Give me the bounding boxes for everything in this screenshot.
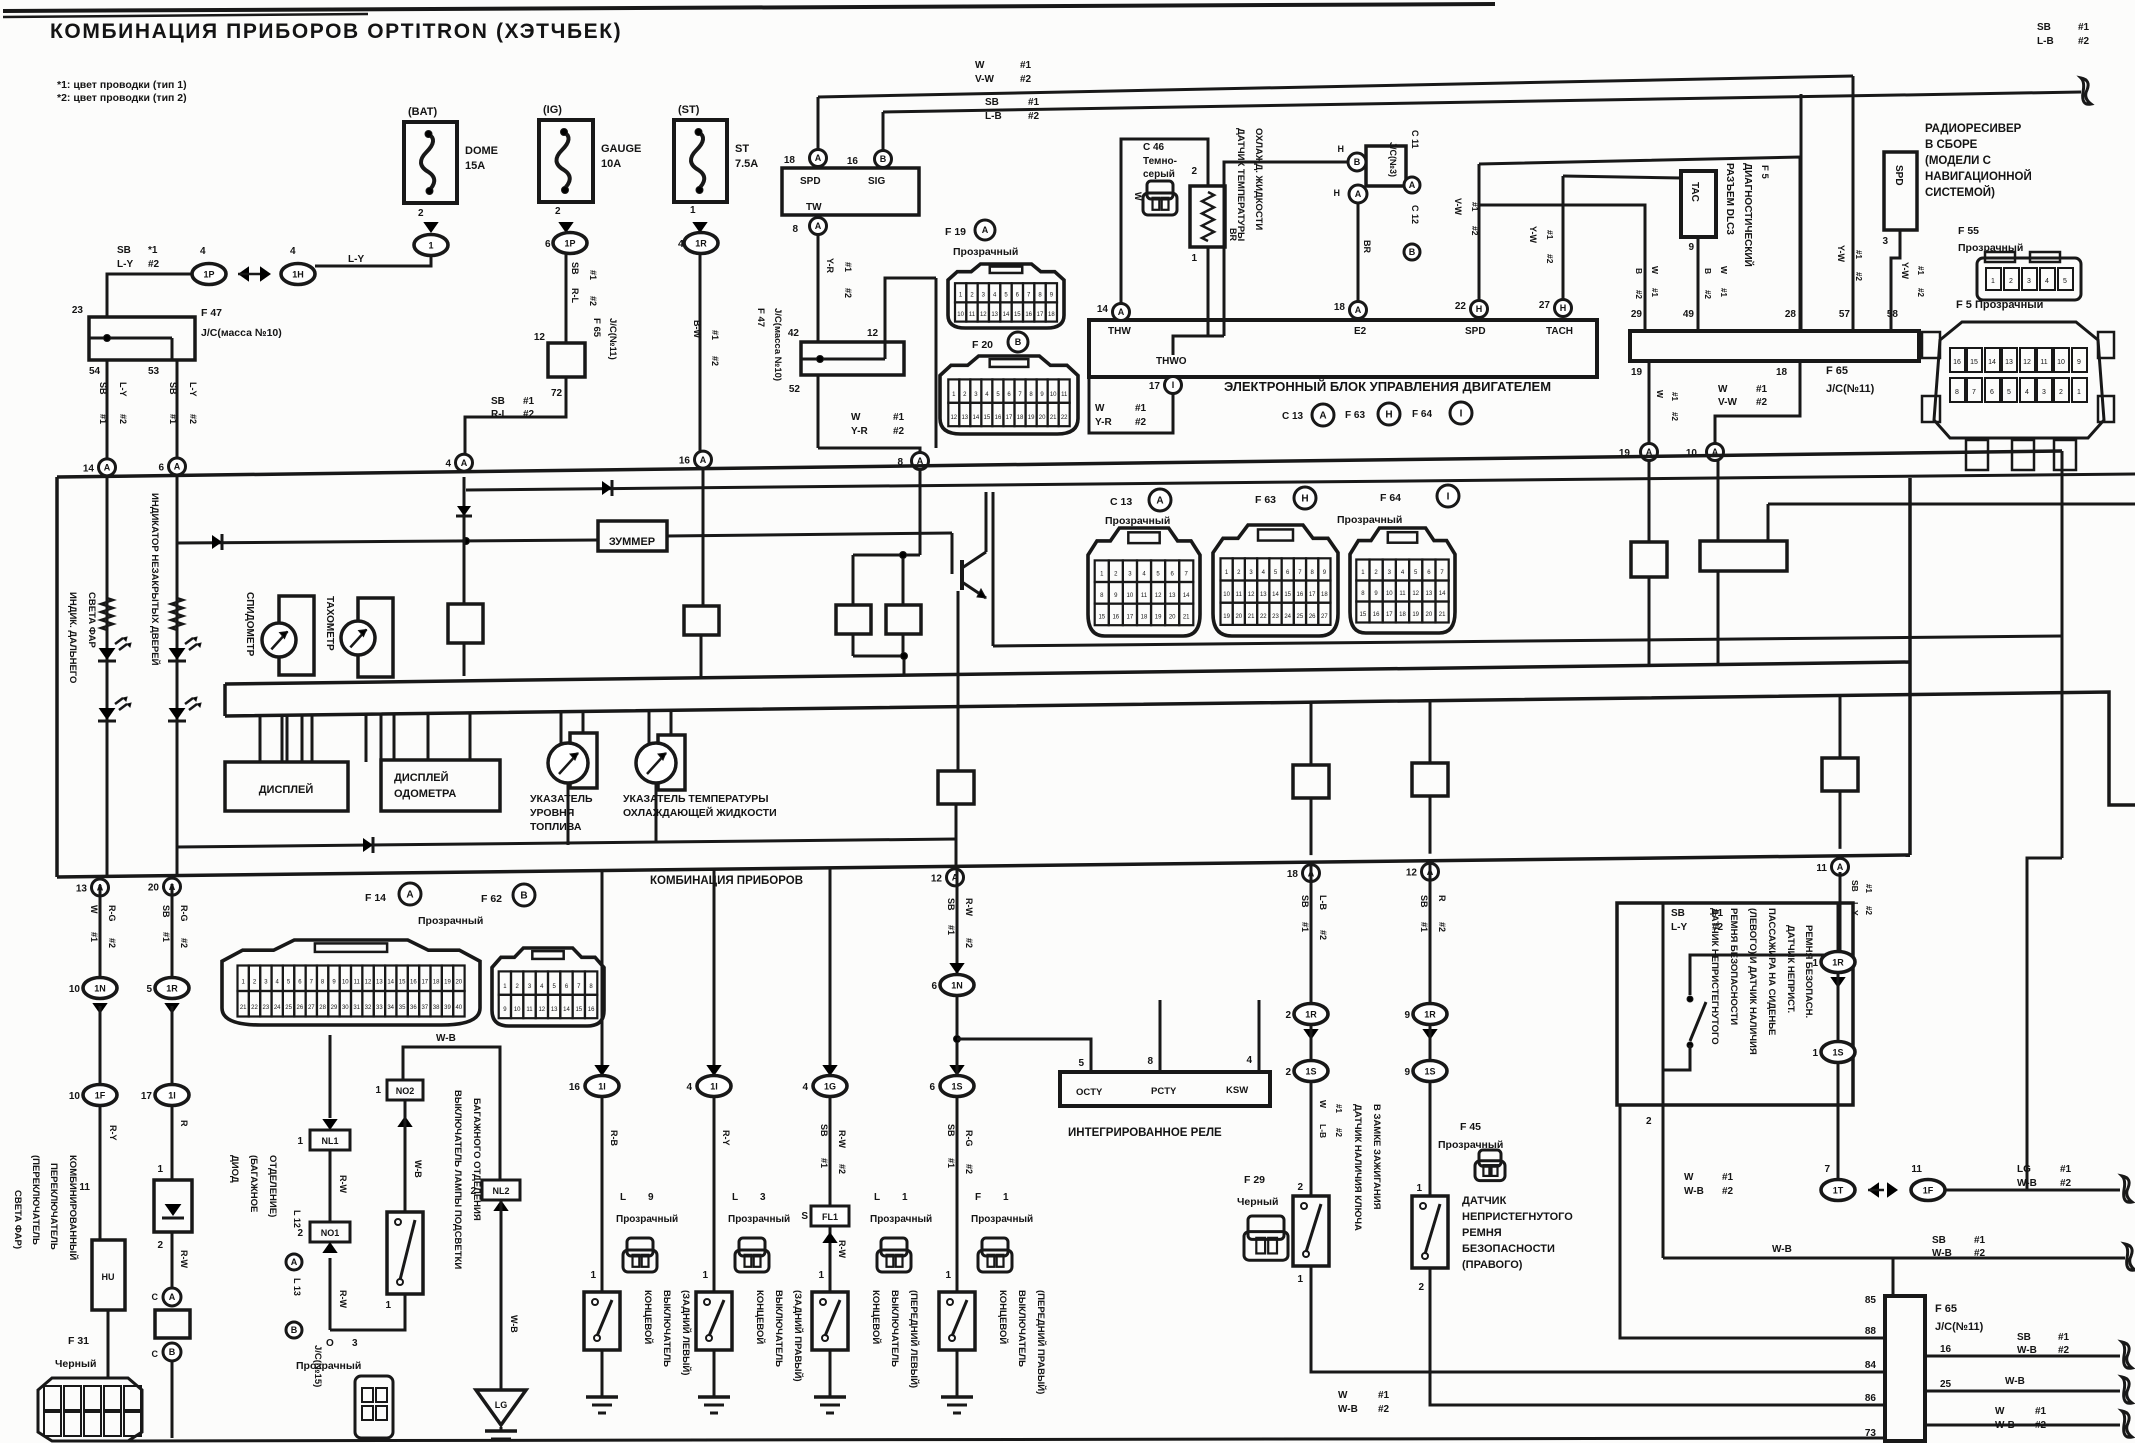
svg-text:W-B: W-B bbox=[1995, 1420, 2015, 1431]
svg-text:#2: #2 bbox=[2078, 36, 2090, 47]
svg-text:24: 24 bbox=[274, 1005, 281, 1011]
svg-text:8: 8 bbox=[1147, 1056, 1153, 1067]
svg-text:L-B: L-B bbox=[2037, 36, 2054, 47]
svg-text:Y-R: Y-R bbox=[851, 426, 868, 437]
svg-text:1I: 1I bbox=[598, 1082, 606, 1092]
svg-text:17: 17 bbox=[1006, 415, 1013, 421]
svg-text:2: 2 bbox=[157, 1240, 163, 1251]
svg-text:#2: #2 bbox=[964, 938, 974, 948]
svg-text:W: W bbox=[1655, 390, 1665, 399]
svg-text:22: 22 bbox=[1061, 415, 1068, 421]
svg-text:РАДИОРЕСИВЕР: РАДИОРЕСИВЕР bbox=[1925, 123, 2022, 135]
svg-text:#2: #2 bbox=[1634, 290, 1643, 299]
svg-text:10: 10 bbox=[2057, 359, 2065, 366]
svg-text:Черный: Черный bbox=[55, 1358, 96, 1370]
svg-text:#2: #2 bbox=[2058, 1345, 2070, 1356]
svg-text:39: 39 bbox=[444, 1005, 451, 1011]
svg-text:54: 54 bbox=[89, 366, 101, 377]
svg-text:20: 20 bbox=[1235, 614, 1242, 620]
svg-text:27: 27 bbox=[1539, 300, 1551, 311]
svg-text:5: 5 bbox=[2007, 389, 2011, 396]
svg-text:H: H bbox=[1560, 303, 1567, 313]
svg-text:86: 86 bbox=[1865, 1393, 1877, 1404]
svg-text:W-B: W-B bbox=[2017, 1178, 2037, 1189]
svg-text:13: 13 bbox=[551, 1007, 558, 1013]
svg-text:В СБОРЕ: В СБОРЕ bbox=[1925, 139, 1978, 151]
svg-text:1: 1 bbox=[702, 1270, 708, 1281]
svg-text:A: A bbox=[700, 455, 707, 465]
svg-text:4: 4 bbox=[2045, 278, 2049, 285]
svg-text:TACH: TACH bbox=[1546, 326, 1573, 337]
svg-text:W: W bbox=[1718, 384, 1728, 395]
svg-text:I: I bbox=[1447, 492, 1450, 503]
svg-text:H: H bbox=[1301, 494, 1308, 505]
svg-text:SB: SB bbox=[946, 898, 956, 911]
svg-text:СВЕТА ФАР: СВЕТА ФАР bbox=[86, 592, 97, 648]
svg-text:КОНЦЕВОЙ: КОНЦЕВОЙ bbox=[754, 1290, 766, 1344]
svg-text:2: 2 bbox=[555, 206, 561, 217]
svg-text:(ЛЕВОГО) И ДАТЧИК НАЛИЧИЯ: (ЛЕВОГО) И ДАТЧИК НАЛИЧИЯ bbox=[1747, 908, 1758, 1055]
svg-text:R-L: R-L bbox=[570, 288, 580, 303]
svg-text:Прозрачный: Прозрачный bbox=[616, 1214, 678, 1225]
svg-text:21: 21 bbox=[1183, 615, 1190, 621]
svg-text:SB: SB bbox=[491, 396, 505, 407]
svg-text:#1: #1 bbox=[1470, 202, 1480, 212]
svg-text:#1: #1 bbox=[819, 1158, 829, 1168]
svg-text:4: 4 bbox=[686, 1082, 692, 1093]
svg-text:R-G: R-G bbox=[107, 905, 117, 922]
svg-text:W: W bbox=[1095, 403, 1105, 414]
svg-text:A: A bbox=[174, 462, 181, 472]
svg-text:34: 34 bbox=[387, 1005, 394, 1011]
svg-text:14: 14 bbox=[1097, 304, 1109, 315]
svg-text:15: 15 bbox=[1098, 615, 1105, 621]
svg-text:H: H bbox=[1338, 144, 1345, 154]
svg-text:#1: #1 bbox=[1670, 392, 1679, 401]
svg-text:R-B: R-B bbox=[609, 1130, 619, 1146]
svg-text:11: 11 bbox=[1911, 1164, 1922, 1175]
svg-text:O: O bbox=[326, 1338, 334, 1349]
svg-text:6: 6 bbox=[1990, 389, 1994, 396]
svg-text:БЕЗОПАСНОСТИ: БЕЗОПАСНОСТИ bbox=[1462, 1243, 1555, 1255]
svg-text:#2: #2 bbox=[1470, 226, 1480, 236]
svg-text:СПИДОМЕТР: СПИДОМЕТР bbox=[244, 592, 255, 657]
svg-text:#2: #2 bbox=[1670, 412, 1679, 421]
svg-text:2: 2 bbox=[2059, 389, 2063, 396]
svg-text:4: 4 bbox=[445, 459, 451, 470]
svg-text:A: A bbox=[169, 1292, 176, 1302]
svg-text:#2: #2 bbox=[1854, 272, 1863, 281]
svg-text:52: 52 bbox=[789, 384, 801, 395]
svg-text:W: W bbox=[1318, 1100, 1328, 1109]
svg-text:R-Y: R-Y bbox=[108, 1125, 118, 1141]
svg-text:14: 14 bbox=[387, 979, 394, 985]
svg-text:1I: 1I bbox=[710, 1082, 718, 1092]
svg-text:23: 23 bbox=[72, 305, 84, 316]
svg-text:26: 26 bbox=[297, 1005, 304, 1011]
svg-text:#2: #2 bbox=[118, 414, 128, 424]
svg-text:Y-W: Y-W bbox=[1900, 262, 1910, 280]
svg-text:10: 10 bbox=[1050, 392, 1057, 398]
svg-text:29: 29 bbox=[1631, 309, 1643, 320]
svg-text:18: 18 bbox=[433, 979, 440, 985]
svg-text:10A: 10A bbox=[601, 158, 621, 170]
svg-text:A: A bbox=[1156, 496, 1163, 507]
svg-text:SB: SB bbox=[2037, 22, 2051, 33]
svg-text:2: 2 bbox=[1285, 1067, 1291, 1078]
svg-text:L-B: L-B bbox=[1318, 1124, 1328, 1138]
svg-text:КОНЦЕВОЙ: КОНЦЕВОЙ bbox=[997, 1290, 1009, 1344]
svg-text:#2: #2 bbox=[1437, 922, 1447, 932]
svg-text:25: 25 bbox=[1297, 614, 1304, 620]
svg-text:#2: #2 bbox=[1756, 397, 1768, 408]
svg-text:Y-W: Y-W bbox=[1836, 245, 1846, 263]
svg-text:Темно-: Темно- bbox=[1143, 156, 1177, 167]
svg-text:1S: 1S bbox=[951, 1082, 962, 1092]
svg-text:#1: #1 bbox=[2060, 1164, 2072, 1175]
svg-text:H: H bbox=[1334, 188, 1341, 198]
svg-text:16: 16 bbox=[995, 415, 1002, 421]
svg-text:#2: #2 bbox=[837, 1164, 847, 1174]
svg-text:#2: #2 bbox=[1864, 906, 1873, 915]
svg-text:B: B bbox=[291, 1325, 298, 1335]
svg-text:#1: #1 bbox=[2035, 1406, 2047, 1417]
svg-text:Прозрачный: Прозрачный bbox=[1337, 514, 1402, 526]
svg-text:ОХЛАЖДАЮЩЕЙ ЖИДКОСТИ: ОХЛАЖДАЮЩЕЙ ЖИДКОСТИ bbox=[623, 806, 777, 819]
svg-text:#2: #2 bbox=[1974, 1248, 1986, 1259]
svg-text:85: 85 bbox=[1865, 1295, 1877, 1306]
svg-text:1: 1 bbox=[385, 1300, 391, 1311]
svg-text:12: 12 bbox=[365, 979, 372, 985]
svg-text:16: 16 bbox=[410, 979, 417, 985]
svg-text:#1: #1 bbox=[1334, 1104, 1343, 1113]
svg-text:НЕПРИСТЕГНУТОГО: НЕПРИСТЕГНУТОГО bbox=[1462, 1211, 1573, 1223]
svg-text:16: 16 bbox=[1373, 612, 1380, 618]
svg-text:12: 12 bbox=[980, 312, 987, 318]
svg-text:14: 14 bbox=[563, 1007, 570, 1013]
svg-text:L-B: L-B bbox=[985, 111, 1002, 122]
svg-text:C 11: C 11 bbox=[1410, 130, 1420, 149]
svg-text:13: 13 bbox=[961, 415, 968, 421]
svg-text:1R: 1R bbox=[1305, 1010, 1317, 1020]
svg-text:(IG): (IG) bbox=[543, 104, 562, 116]
svg-text:23: 23 bbox=[263, 1005, 270, 1011]
svg-text:A: A bbox=[461, 458, 468, 468]
svg-text:#2: #2 bbox=[1545, 254, 1555, 264]
svg-text:1: 1 bbox=[1297, 1274, 1303, 1285]
svg-text:1S: 1S bbox=[1305, 1067, 1316, 1077]
svg-text:1: 1 bbox=[945, 1270, 951, 1281]
svg-text:#2: #2 bbox=[1916, 288, 1925, 297]
svg-text:J/C(масса №10): J/C(масса №10) bbox=[772, 308, 783, 381]
svg-text:W-B: W-B bbox=[1684, 1186, 1704, 1197]
svg-text:20: 20 bbox=[455, 979, 462, 985]
svg-text:L 12: L 12 bbox=[292, 1210, 302, 1228]
svg-text:4: 4 bbox=[1246, 1055, 1252, 1066]
svg-text:Y-W: Y-W bbox=[1528, 226, 1538, 244]
svg-text:B-W: B-W bbox=[692, 320, 702, 338]
svg-text:R-Y: R-Y bbox=[721, 1130, 731, 1146]
svg-text:1R: 1R bbox=[1832, 958, 1844, 968]
svg-text:серый: серый bbox=[1143, 169, 1175, 180]
svg-text:1F: 1F bbox=[1923, 1186, 1934, 1196]
svg-text:(БАГАЖНОЕ: (БАГАЖНОЕ bbox=[248, 1155, 259, 1212]
svg-text:20: 20 bbox=[1169, 615, 1176, 621]
svg-text:W-B: W-B bbox=[413, 1160, 423, 1178]
svg-text:C 12: C 12 bbox=[1410, 205, 1420, 224]
svg-text:J/C(№11): J/C(№11) bbox=[607, 318, 618, 360]
svg-text:V-W: V-W bbox=[1718, 397, 1737, 408]
svg-text:14: 14 bbox=[1272, 592, 1279, 598]
svg-text:12: 12 bbox=[867, 328, 879, 339]
svg-text:16: 16 bbox=[1297, 592, 1304, 598]
svg-text:7.5A: 7.5A bbox=[735, 158, 758, 170]
svg-text:16: 16 bbox=[847, 156, 859, 167]
svg-text:9: 9 bbox=[2077, 359, 2081, 366]
svg-text:PCTY: PCTY bbox=[1151, 1086, 1177, 1097]
svg-text:(МОДЕЛИ С: (МОДЕЛИ С bbox=[1925, 155, 1991, 167]
svg-text:15: 15 bbox=[399, 979, 406, 985]
svg-text:1R: 1R bbox=[166, 984, 178, 994]
svg-text:C: C bbox=[152, 1292, 159, 1302]
svg-text:C 13: C 13 bbox=[1282, 411, 1304, 422]
svg-text:28: 28 bbox=[319, 1005, 326, 1011]
svg-text:31: 31 bbox=[353, 1005, 360, 1011]
svg-text:A: A bbox=[1837, 862, 1844, 872]
svg-text:#1: #1 bbox=[946, 1158, 956, 1168]
svg-text:УКАЗАТЕЛЬ: УКАЗАТЕЛЬ bbox=[530, 793, 593, 805]
svg-text:I: I bbox=[1172, 380, 1175, 390]
svg-text:Черный: Черный bbox=[1237, 1196, 1278, 1208]
svg-text:1: 1 bbox=[818, 1270, 824, 1281]
svg-text:R-W: R-W bbox=[964, 898, 974, 916]
svg-text:1S: 1S bbox=[1424, 1067, 1435, 1077]
svg-text:14: 14 bbox=[1003, 312, 1010, 318]
svg-text:A: A bbox=[291, 1257, 298, 1267]
svg-text:72: 72 bbox=[551, 388, 563, 399]
svg-text:L-B: L-B bbox=[1318, 895, 1328, 910]
svg-text:14: 14 bbox=[973, 415, 980, 421]
svg-text:11: 11 bbox=[1141, 593, 1148, 599]
svg-text:10: 10 bbox=[957, 312, 964, 318]
svg-text:15: 15 bbox=[1970, 359, 1978, 366]
svg-text:21: 21 bbox=[1439, 612, 1446, 618]
svg-text:#1: #1 bbox=[1722, 1172, 1734, 1183]
svg-text:BR: BR bbox=[1362, 240, 1372, 253]
svg-text:1: 1 bbox=[2077, 389, 2081, 396]
svg-text:17: 17 bbox=[1386, 612, 1393, 618]
svg-text:W: W bbox=[1995, 1406, 2005, 1417]
svg-text:A: A bbox=[815, 153, 822, 163]
svg-text:12: 12 bbox=[931, 873, 943, 884]
svg-text:*1: цвет проводки (тип 1): *1: цвет проводки (тип 1) bbox=[57, 79, 187, 91]
svg-text:10: 10 bbox=[1223, 592, 1230, 598]
svg-text:SB: SB bbox=[1932, 1235, 1946, 1246]
svg-text:F: F bbox=[975, 1192, 981, 1203]
svg-text:21: 21 bbox=[240, 1005, 247, 1011]
svg-text:R-W: R-W bbox=[179, 1250, 189, 1268]
svg-text:R-G: R-G bbox=[179, 905, 189, 922]
svg-text:R: R bbox=[1437, 895, 1447, 902]
svg-text:11: 11 bbox=[526, 1007, 533, 1013]
svg-text:H: H bbox=[1385, 410, 1392, 421]
svg-text:ОТДЕЛЕНИЕ): ОТДЕЛЕНИЕ) bbox=[267, 1155, 278, 1217]
svg-text:#2: #2 bbox=[1028, 111, 1040, 122]
svg-text:БАГАЖНОГО ОТДЕЛЕНИЯ: БАГАЖНОГО ОТДЕЛЕНИЯ bbox=[471, 1098, 482, 1221]
svg-text:L: L bbox=[620, 1192, 626, 1203]
svg-text:W: W bbox=[1133, 192, 1143, 201]
svg-text:#1: #1 bbox=[710, 330, 720, 340]
svg-text:NL2: NL2 bbox=[492, 1186, 509, 1196]
svg-text:#1: #1 bbox=[89, 932, 99, 942]
svg-text:8: 8 bbox=[1955, 389, 1959, 396]
svg-text:#2: #2 bbox=[588, 296, 598, 306]
svg-text:11: 11 bbox=[1061, 392, 1068, 398]
svg-text:(ПЕРЕКЛЮЧАТЕЛЬ: (ПЕРЕКЛЮЧАТЕЛЬ bbox=[30, 1155, 41, 1245]
svg-text:#1: #1 bbox=[1854, 250, 1863, 259]
svg-text:F 64: F 64 bbox=[1412, 409, 1432, 420]
svg-text:F 47: F 47 bbox=[755, 308, 766, 327]
svg-text:W-B: W-B bbox=[1932, 1248, 1952, 1259]
svg-text:26: 26 bbox=[1309, 614, 1316, 620]
svg-text:12: 12 bbox=[2023, 359, 2031, 366]
svg-text:13: 13 bbox=[1426, 591, 1433, 597]
svg-text:SB: SB bbox=[946, 1124, 956, 1137]
svg-text:СВЕТА ФАР): СВЕТА ФАР) bbox=[12, 1190, 23, 1249]
svg-text:#1: #1 bbox=[2078, 22, 2090, 33]
svg-text:#1: #1 bbox=[1719, 288, 1728, 297]
svg-text:ЗУММЕР: ЗУММЕР bbox=[609, 536, 655, 548]
svg-text:NL1: NL1 bbox=[321, 1136, 338, 1146]
svg-text:1: 1 bbox=[1812, 1048, 1818, 1059]
svg-text:V-W: V-W bbox=[1453, 198, 1463, 216]
svg-text:SB: SB bbox=[1671, 908, 1685, 919]
svg-text:#1: #1 bbox=[2058, 1332, 2070, 1343]
svg-text:2: 2 bbox=[418, 208, 424, 219]
svg-text:13: 13 bbox=[1169, 593, 1176, 599]
svg-text:18: 18 bbox=[1048, 312, 1055, 318]
svg-text:Прозрачный: Прозрачный bbox=[728, 1214, 790, 1225]
svg-text:13: 13 bbox=[376, 979, 383, 985]
svg-text:17: 17 bbox=[1127, 615, 1134, 621]
svg-text:10: 10 bbox=[342, 979, 349, 985]
svg-text:ДАТЧИК ТЕМПЕРАТУРЫ: ДАТЧИК ТЕМПЕРАТУРЫ bbox=[1235, 128, 1246, 241]
svg-text:6: 6 bbox=[929, 1082, 935, 1093]
svg-text:12: 12 bbox=[1412, 591, 1419, 597]
svg-text:A: A bbox=[1355, 305, 1362, 315]
svg-text:#1: #1 bbox=[1545, 230, 1555, 240]
svg-text:ДАТЧИК НЕПРИСТ.: ДАТЧИК НЕПРИСТ. bbox=[1785, 925, 1796, 1013]
svg-text:18: 18 bbox=[1141, 615, 1148, 621]
svg-text:1I: 1I bbox=[168, 1091, 176, 1101]
svg-text:SB: SB bbox=[985, 97, 999, 108]
svg-text:Y-R: Y-R bbox=[825, 258, 835, 274]
svg-text:F 65: F 65 bbox=[1935, 1303, 1957, 1315]
svg-text:РЕМНЯ БЕЗОПАСНОСТИ: РЕМНЯ БЕЗОПАСНОСТИ bbox=[1728, 908, 1739, 1025]
svg-text:40: 40 bbox=[455, 1005, 462, 1011]
svg-text:23: 23 bbox=[1272, 614, 1279, 620]
svg-text:TAC: TAC bbox=[1689, 182, 1700, 202]
svg-text:8: 8 bbox=[792, 224, 798, 235]
svg-text:3: 3 bbox=[352, 1338, 358, 1349]
svg-text:18: 18 bbox=[1287, 869, 1299, 880]
svg-text:35: 35 bbox=[399, 1005, 406, 1011]
svg-text:1N: 1N bbox=[94, 984, 106, 994]
svg-text:1N: 1N bbox=[951, 981, 963, 991]
svg-text:B: B bbox=[1703, 268, 1713, 274]
svg-text:#2: #2 bbox=[893, 426, 905, 437]
svg-text:B: B bbox=[1354, 157, 1361, 167]
svg-text:R-G: R-G bbox=[964, 1130, 974, 1147]
svg-text:W: W bbox=[89, 905, 99, 914]
svg-text:A: A bbox=[982, 225, 989, 235]
svg-text:58: 58 bbox=[1887, 309, 1899, 320]
svg-text:#1: #1 bbox=[1419, 922, 1429, 932]
svg-text:12: 12 bbox=[1406, 868, 1418, 879]
svg-text:L-Y: L-Y bbox=[117, 259, 133, 270]
svg-text:37: 37 bbox=[421, 1005, 428, 1011]
svg-text:24: 24 bbox=[1284, 614, 1291, 620]
svg-text:ПАССАЖИРА НА СИДЕНЬЕ: ПАССАЖИРА НА СИДЕНЬЕ bbox=[1766, 908, 1777, 1035]
svg-text:ДАТЧИК НАЛИЧИЯ КЛЮЧА: ДАТЧИК НАЛИЧИЯ КЛЮЧА bbox=[1352, 1104, 1363, 1231]
svg-text:10: 10 bbox=[1127, 593, 1134, 599]
svg-text:J/C(масса №10): J/C(масса №10) bbox=[201, 327, 282, 339]
svg-text:19: 19 bbox=[1412, 612, 1419, 618]
svg-text:9: 9 bbox=[1688, 242, 1694, 253]
svg-text:F 62: F 62 bbox=[481, 893, 502, 905]
svg-text:13: 13 bbox=[2005, 359, 2013, 366]
svg-text:W: W bbox=[1650, 266, 1660, 275]
svg-text:A: A bbox=[1118, 307, 1125, 317]
svg-text:#1: #1 bbox=[523, 396, 535, 407]
svg-text:LG: LG bbox=[2017, 1164, 2031, 1175]
svg-text:11: 11 bbox=[354, 979, 361, 985]
svg-text:11: 11 bbox=[2040, 359, 2047, 366]
svg-text:21: 21 bbox=[1050, 415, 1057, 421]
svg-text:#2: #2 bbox=[1318, 930, 1328, 940]
svg-text:W-B: W-B bbox=[436, 1033, 456, 1044]
svg-text:12: 12 bbox=[950, 415, 957, 421]
svg-text:33: 33 bbox=[376, 1005, 383, 1011]
svg-text:ТОПЛИВА: ТОПЛИВА bbox=[530, 821, 582, 833]
svg-text:L 13: L 13 bbox=[292, 1278, 302, 1296]
svg-text:(ЗАДНИЙ ЛЕВЫЙ): (ЗАДНИЙ ЛЕВЫЙ) bbox=[680, 1290, 692, 1375]
svg-text:SPD: SPD bbox=[1893, 165, 1904, 186]
svg-text:15: 15 bbox=[1360, 612, 1367, 618]
svg-text:КОМБИНИРОВАННЫЙ: КОМБИНИРОВАННЫЙ bbox=[67, 1155, 79, 1260]
svg-text:SB: SB bbox=[570, 262, 580, 275]
svg-text:КОМБИНАЦИЯ ПРИБОРОВ OPTITRON (: КОМБИНАЦИЯ ПРИБОРОВ OPTITRON (ХЭТЧБЕК) bbox=[50, 20, 622, 43]
svg-text:W: W bbox=[1684, 1172, 1694, 1183]
svg-text:B: B bbox=[1015, 337, 1022, 347]
svg-text:21: 21 bbox=[1248, 614, 1255, 620]
svg-text:SB: SB bbox=[161, 905, 171, 918]
svg-text:W: W bbox=[1338, 1390, 1348, 1401]
svg-text:2: 2 bbox=[1297, 1182, 1303, 1193]
svg-text:#2: #2 bbox=[1703, 290, 1712, 299]
svg-text:(ЗАДНИЙ ПРАВЫЙ): (ЗАДНИЙ ПРАВЫЙ) bbox=[792, 1290, 804, 1382]
svg-text:B: B bbox=[169, 1347, 176, 1357]
svg-text:2: 2 bbox=[297, 1228, 303, 1239]
svg-text:C: C bbox=[152, 1349, 159, 1359]
svg-text:11: 11 bbox=[1236, 592, 1243, 598]
svg-text:A: A bbox=[1319, 411, 1326, 422]
svg-text:R: R bbox=[179, 1120, 189, 1127]
svg-text:3: 3 bbox=[760, 1192, 766, 1203]
svg-text:1G: 1G bbox=[824, 1082, 836, 1092]
svg-text:10: 10 bbox=[69, 1091, 81, 1102]
svg-text:20: 20 bbox=[148, 883, 160, 894]
